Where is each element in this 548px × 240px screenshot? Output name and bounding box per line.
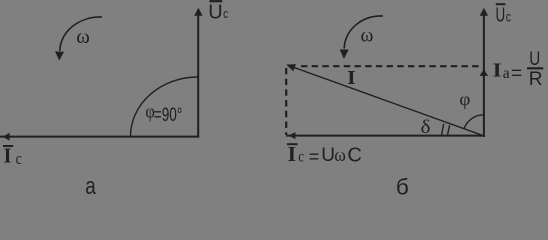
vector I_c axis (diagram b) xyxy=(286,132,485,139)
svg-text:I: I xyxy=(4,143,12,167)
svg-text:а: а xyxy=(85,173,96,195)
label U_c with overbar (diagram a) xyxy=(208,1,228,23)
vector I_a arrowhead on U axis (diagram b) xyxy=(480,69,489,76)
vector I_c axis (diagram a) xyxy=(0,133,199,141)
svg-text:c: c xyxy=(16,149,23,168)
svg-text:R: R xyxy=(529,69,543,90)
svg-text:c: c xyxy=(298,148,304,165)
svg-text:I: I xyxy=(493,60,502,82)
vector U_c axis (diagram a) xyxy=(194,8,202,138)
svg-text:=90°: =90° xyxy=(154,105,183,126)
svg-text:б: б xyxy=(396,175,409,195)
angle arc phi=90 (diagram a) xyxy=(131,77,198,137)
label phi=90deg (diagram a) xyxy=(145,102,182,127)
angle delta tick marks (diagram b) xyxy=(442,124,450,135)
vector U_c axis (diagram b) xyxy=(480,8,488,137)
svg-text:φ: φ xyxy=(459,89,470,109)
svg-text:c: c xyxy=(506,8,511,24)
label I_c = U omega C (diagram b) xyxy=(287,142,362,166)
label I_c with overbar (diagram a) xyxy=(3,143,22,168)
label I_a = U/R (diagram b) xyxy=(493,49,544,90)
svg-text:=: = xyxy=(309,146,320,166)
svg-text:ω: ω xyxy=(76,26,90,48)
svg-text:C: C xyxy=(347,144,361,166)
svg-text:I: I xyxy=(347,67,356,89)
svg-text:=: = xyxy=(511,63,522,85)
svg-text:ω: ω xyxy=(361,24,374,46)
omega rotation arrow (diagram a) xyxy=(55,17,102,61)
svg-text:a: a xyxy=(503,65,510,82)
svg-text:I: I xyxy=(288,142,296,166)
svg-text:δ: δ xyxy=(421,117,431,138)
svg-text:U: U xyxy=(208,2,222,24)
angle arc phi (diagram b) xyxy=(464,115,484,129)
dashed vertical projection line (diagram b) xyxy=(285,68,287,135)
vector I (diagram b) xyxy=(286,64,484,136)
dashed horizontal projection line (diagram b) xyxy=(301,65,481,67)
omega rotation arrow (diagram b) xyxy=(340,16,383,59)
svg-text:c: c xyxy=(223,7,228,21)
label U_c with overbar (diagram b) xyxy=(496,4,512,26)
svg-text:U: U xyxy=(321,145,335,166)
svg-text:U: U xyxy=(496,4,506,26)
svg-text:U: U xyxy=(529,49,540,70)
svg-text:ω: ω xyxy=(334,145,346,166)
